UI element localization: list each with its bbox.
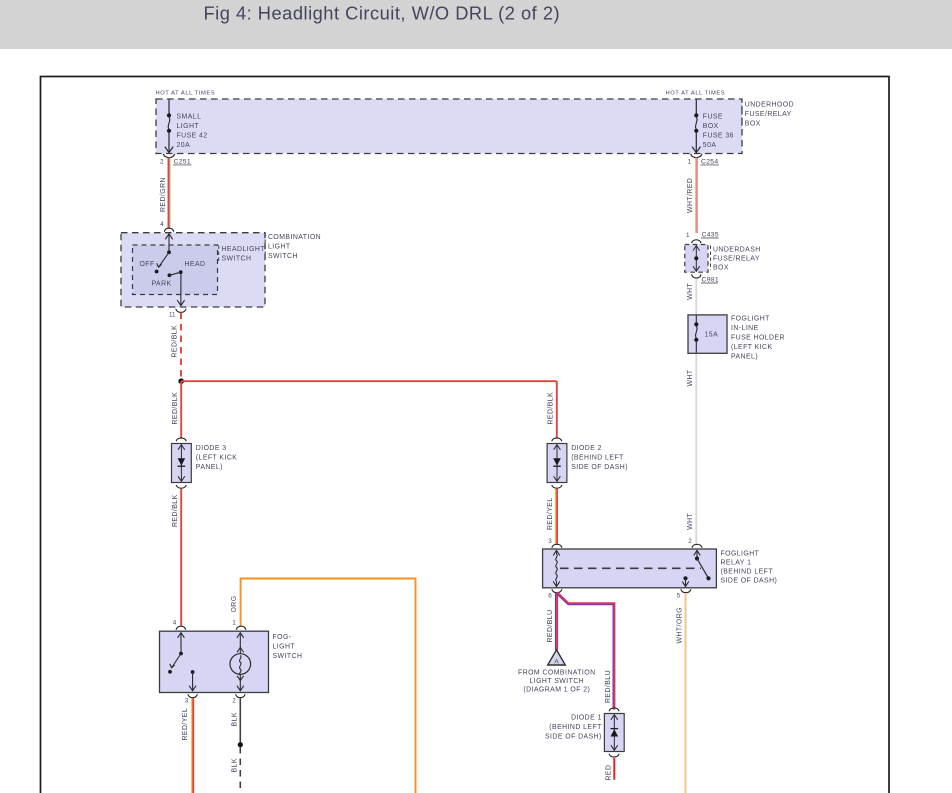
svg-text:4: 4 (173, 619, 177, 626)
svg-text:BOX: BOX (745, 121, 761, 128)
wire WHT/RED (C254 to C435) (687, 158, 697, 234)
svg-text:20A: 20A (177, 142, 191, 149)
svg-text:SIDE OF DASH): SIDE OF DASH) (571, 464, 628, 471)
svg-text:LIGHT: LIGHT (268, 243, 291, 250)
svg-text:LIGHT SWITCH: LIGHT SWITCH (529, 678, 584, 685)
svg-text:UNDERHOOD: UNDERHOOD (745, 101, 794, 108)
svg-text:BLK: BLK (231, 758, 238, 772)
svg-text:6: 6 (548, 593, 552, 600)
svg-text:SWITCH: SWITCH (222, 255, 252, 262)
svg-text:RED/BLK: RED/BLK (547, 392, 554, 425)
svg-text:LIGHT: LIGHT (273, 644, 296, 651)
diode D1 (DIODE 1, BEHIND LEFT SIDE OF DASH) (545, 708, 624, 757)
relay pin 5 (677, 589, 691, 599)
wire RED/BLK (junction down to diode 3) (172, 381, 181, 438)
svg-text:PANEL): PANEL) (196, 464, 223, 471)
wire RED/BLK dashed (pin 11 to junction) (172, 313, 182, 380)
svg-text:11: 11 (169, 312, 176, 319)
svg-text:1: 1 (232, 619, 236, 626)
combination light switch (outer box) (121, 233, 265, 307)
svg-text:1: 1 (686, 232, 690, 239)
svg-text:4: 4 (160, 221, 164, 228)
svg-text:FROM COMBINATION: FROM COMBINATION (518, 670, 596, 677)
svg-text:BOX: BOX (703, 123, 719, 130)
svg-text:2: 2 (160, 158, 164, 165)
wire RED (diode 1 down) (605, 758, 614, 781)
wire WHT/ORG (relay pin 5 down) (677, 593, 686, 793)
foglight in-line fuse holder (688, 315, 785, 361)
wire RED/BLU (relay pin 6 down to triangle A) (547, 593, 557, 650)
label FOGLIGHT RELAY 1 (721, 551, 778, 585)
wire RED/YEL (diode 2 to relay pin 3) (547, 489, 557, 545)
svg-text:PANEL): PANEL) (731, 354, 758, 361)
headlight switch (inner box) (133, 245, 218, 295)
svg-text:BLK: BLK (231, 712, 238, 726)
title bar (0, 0, 952, 49)
svg-text:WHT/RED: WHT/RED (687, 178, 694, 213)
svg-text:(LEFT KICK: (LEFT KICK (731, 344, 773, 351)
svg-text:C251: C251 (174, 158, 191, 165)
svg-text:BOX: BOX (713, 264, 729, 271)
svg-text:WHT: WHT (687, 512, 694, 529)
svg-text:WHT: WHT (687, 282, 694, 299)
relay pin 6 (548, 589, 562, 599)
svg-text:5: 5 (677, 593, 681, 600)
fuse F36 (FUSE BOX FUSE 36 50A) (692, 100, 734, 153)
svg-text:OFF: OFF (140, 261, 155, 268)
svg-text:IN-LINE: IN-LINE (731, 325, 759, 332)
svg-text:PARK: PARK (152, 280, 172, 287)
wire RED/BLK horizontal (junction to diode 2 drop) (181, 380, 557, 382)
svg-text:FUSE 42: FUSE 42 (177, 132, 208, 139)
svg-text:C981: C981 (702, 277, 719, 284)
junction node (178, 378, 184, 384)
underdash fuse/relay box (685, 245, 761, 273)
connector C254 pin 1 (688, 154, 720, 166)
svg-text:HOT AT ALL TIMES: HOT AT ALL TIMES (156, 91, 216, 97)
label UNDERHOOD FUSE/RELAY BOX (742, 100, 794, 128)
svg-text:DIODE 2: DIODE 2 (571, 445, 602, 452)
relay internal dashed link (560, 567, 701, 569)
foglight switch pin 4 (173, 619, 186, 629)
wire RED/BLK (drop to diode 2) (547, 381, 557, 438)
label HEADLIGHT SWITCH (219, 246, 266, 263)
diode D3 (DIODE 3, LEFT KICK PANEL) (172, 438, 238, 488)
svg-text:15A: 15A (705, 331, 719, 338)
headlight switch internals (140, 234, 206, 306)
svg-text:C254: C254 (701, 158, 718, 165)
svg-text:A: A (554, 659, 559, 666)
svg-text:FUSE: FUSE (703, 114, 723, 121)
fog-light switch lamp (230, 633, 251, 691)
svg-text:RELAY 1: RELAY 1 (721, 560, 752, 567)
fog-light switch box (160, 631, 269, 692)
svg-text:(LEFT KICK: (LEFT KICK (196, 454, 238, 461)
svg-text:UNDERDASH: UNDERDASH (713, 246, 761, 253)
fuse F42 (SMALL LIGHT FUSE 42 20A) (165, 100, 208, 153)
wire WHT (fuse holder to relay pin 2) (687, 354, 696, 545)
svg-text:HEADLIGHT: HEADLIGHT (222, 246, 266, 253)
connector C251 pin 2 (160, 154, 192, 166)
svg-text:(BEHIND LEFT: (BEHIND LEFT (571, 454, 624, 461)
svg-text:C435: C435 (702, 232, 719, 239)
relay pin 3 (548, 538, 562, 548)
svg-text:3: 3 (185, 697, 189, 704)
svg-text:FUSE/RELAY: FUSE/RELAY (713, 255, 760, 262)
svg-text:RED: RED (605, 765, 612, 781)
svg-text:RED/BLU: RED/BLU (605, 670, 612, 703)
svg-text:WHT/ORG: WHT/ORG (677, 607, 684, 643)
svg-text:DIODE 3: DIODE 3 (196, 445, 227, 452)
svg-text:FOG-: FOG- (273, 634, 292, 641)
svg-text:WHT: WHT (687, 369, 694, 386)
svg-text:COMBINATION: COMBINATION (268, 234, 321, 241)
note FROM COMBINATION LIGHT SWITCH (518, 670, 596, 694)
svg-text:HOT AT ALL TIMES: HOT AT ALL TIMES (666, 91, 726, 97)
svg-text:ORG: ORG (231, 595, 238, 612)
diode D2 (DIODE 2, BEHIND LEFT SIDE OF DASH) (547, 438, 628, 488)
svg-text:RED/BLK: RED/BLK (172, 494, 179, 527)
wire RED/BLU (relay pin 6 to diode 1) (556, 592, 615, 709)
svg-text:(DIAGRAM 1 OF 2): (DIAGRAM 1 OF 2) (523, 686, 590, 693)
svg-text:RED/BLK: RED/BLK (172, 325, 179, 358)
svg-text:RED/YEL: RED/YEL (547, 497, 554, 530)
relay pin 2 (688, 538, 702, 548)
svg-text:SIDE OF DASH): SIDE OF DASH) (721, 578, 778, 585)
wire WHT (C981 to fuse holder) (687, 279, 696, 315)
svg-text:FUSE/RELAY: FUSE/RELAY (745, 111, 792, 118)
svg-text:FUSE 36: FUSE 36 (703, 132, 734, 139)
svg-text:1: 1 (688, 158, 692, 165)
svg-text:FOGLIGHT: FOGLIGHT (731, 316, 770, 323)
svg-text:Fig 4: Headlight Circuit, W/O: Fig 4: Headlight Circuit, W/O DRL (2 of … (204, 2, 561, 23)
off-page triangle A (548, 650, 566, 666)
connector C435 pin 1 (686, 232, 719, 244)
wire RED/GRN (C251 to switch pin 4) (160, 158, 170, 229)
foglight relay 1 box (543, 549, 717, 588)
svg-text:2: 2 (688, 538, 692, 545)
svg-text:SWITCH: SWITCH (273, 653, 303, 660)
svg-text:HEAD: HEAD (185, 261, 206, 268)
relay switch contacts (682, 550, 710, 586)
svg-text:FOGLIGHT: FOGLIGHT (721, 551, 760, 558)
wire RED/BLK (diode 3 to foglight switch pin 4) (172, 489, 181, 627)
relay coil (553, 550, 560, 586)
foglight switch pin 3 (185, 694, 198, 704)
svg-text:LIGHT: LIGHT (177, 123, 200, 130)
svg-text:50A: 50A (703, 142, 717, 149)
fog-light switch contacts (168, 633, 196, 691)
svg-text:(BEHIND LEFT: (BEHIND LEFT (721, 569, 774, 576)
svg-text:DIODE 1: DIODE 1 (571, 714, 602, 721)
label COMBINATION LIGHT SWITCH (265, 234, 321, 260)
wire ORG (corner to foglight switch pin 1) (231, 579, 415, 793)
pin 11 of combination light switch (169, 309, 186, 319)
svg-text:RED/BLK: RED/BLK (172, 392, 179, 425)
svg-text:FUSE HOLDER: FUSE HOLDER (731, 335, 785, 342)
svg-text:SIDE OF DASH): SIDE OF DASH) (545, 733, 602, 740)
svg-text:SMALL: SMALL (177, 114, 202, 121)
svg-text:SWITCH: SWITCH (268, 253, 298, 260)
connector C981 (692, 274, 719, 283)
foglight switch pin 2 (232, 694, 245, 704)
underhood fuse/relay box (156, 99, 742, 154)
svg-text:RED/BLU: RED/BLU (547, 609, 554, 642)
wire RED/YEL (foglight switch pin 3 down) (182, 698, 194, 793)
foglight switch pin 1 (232, 619, 246, 629)
label FOG-LIGHT SWITCH (273, 634, 303, 660)
wire BLK (foglight switch pin 2 down) (231, 698, 243, 793)
svg-text:3: 3 (548, 538, 552, 545)
svg-text:2: 2 (232, 697, 236, 704)
svg-text:RED/GRN: RED/GRN (160, 177, 167, 212)
svg-text:(BEHIND LEFT: (BEHIND LEFT (549, 724, 602, 731)
svg-text:RED/YEL: RED/YEL (182, 708, 189, 741)
pin 4 of combination light switch (160, 221, 173, 232)
